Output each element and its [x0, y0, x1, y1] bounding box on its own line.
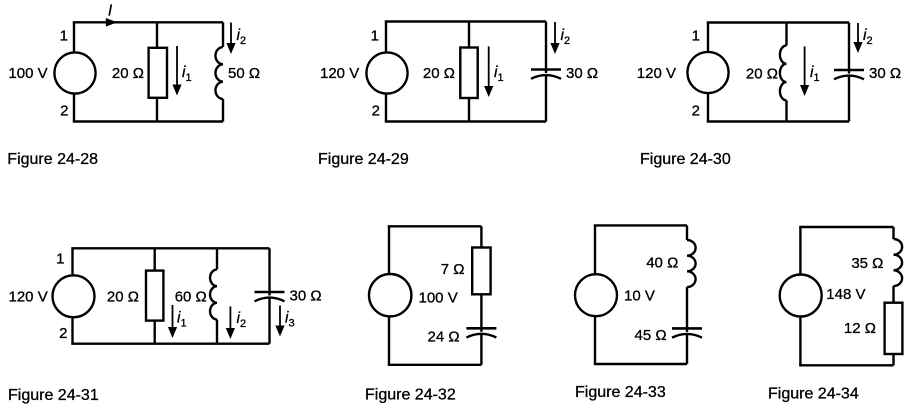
svg-text:Figure 24-32: Figure 24-32: [365, 387, 456, 404]
svg-text:120 V: 120 V: [637, 65, 676, 82]
svg-text:1: 1: [60, 28, 68, 45]
svg-text:1: 1: [692, 28, 700, 45]
svg-text:100 V: 100 V: [8, 65, 47, 82]
svg-text:12 Ω: 12 Ω: [844, 320, 876, 337]
svg-text:20 Ω: 20 Ω: [423, 65, 455, 82]
svg-text:148 V: 148 V: [826, 286, 865, 303]
svg-text:30 Ω: 30 Ω: [566, 65, 598, 82]
svg-text:Figure 24-33: Figure 24-33: [575, 384, 666, 401]
svg-text:24 Ω: 24 Ω: [428, 329, 460, 346]
svg-text:2: 2: [60, 103, 68, 120]
svg-text:30 Ω: 30 Ω: [290, 288, 322, 305]
svg-text:20 Ω: 20 Ω: [746, 66, 778, 83]
svg-text:50 Ω: 50 Ω: [228, 65, 260, 82]
svg-text:120 V: 120 V: [320, 65, 359, 82]
svg-text:2: 2: [59, 325, 67, 342]
svg-text:20 Ω: 20 Ω: [107, 289, 139, 306]
svg-text:1: 1: [371, 28, 379, 45]
svg-text:45 Ω: 45 Ω: [635, 327, 667, 344]
svg-text:Figure 24-31: Figure 24-31: [8, 387, 99, 404]
svg-text:40 Ω: 40 Ω: [646, 255, 678, 272]
svg-text:30 Ω: 30 Ω: [869, 65, 901, 82]
svg-text:Figure 24-30: Figure 24-30: [640, 151, 731, 168]
svg-text:60 Ω: 60 Ω: [175, 289, 207, 306]
svg-text:120 V: 120 V: [9, 289, 48, 306]
svg-text:10 V: 10 V: [624, 288, 655, 305]
svg-text:100 V: 100 V: [419, 290, 458, 307]
svg-text:2: 2: [692, 103, 700, 120]
svg-text:Figure 24-29: Figure 24-29: [318, 151, 409, 168]
svg-text:1: 1: [56, 251, 64, 268]
svg-text:7 Ω: 7 Ω: [441, 261, 465, 278]
svg-text:Figure 24-28: Figure 24-28: [7, 151, 98, 168]
svg-text:Figure 24-34: Figure 24-34: [768, 386, 859, 403]
svg-text:20 Ω: 20 Ω: [112, 65, 144, 82]
svg-text:35 Ω: 35 Ω: [851, 255, 883, 272]
svg-text:I: I: [108, 3, 113, 20]
svg-text:2: 2: [372, 103, 380, 120]
